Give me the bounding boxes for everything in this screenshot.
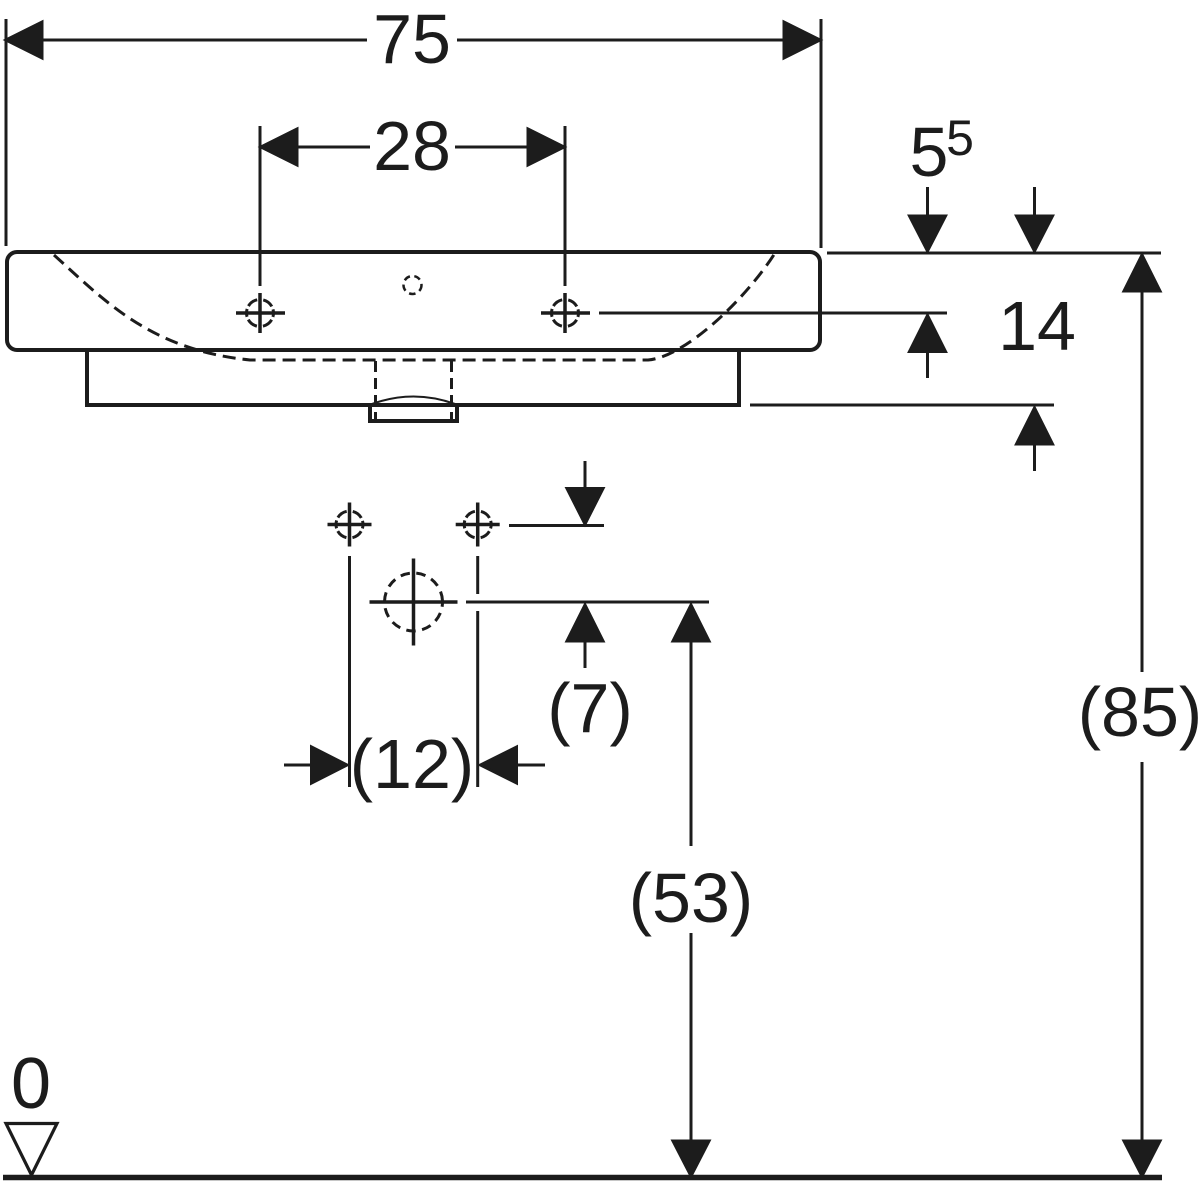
dim 14 up arrow (1017, 408, 1053, 471)
dim 75 left extension line (5, 19, 8, 246)
dim 14 down arrow (1017, 187, 1053, 251)
drain dome arc (372, 397, 455, 405)
basin inner dashed curve (54, 253, 775, 360)
mounting hole axis reference line (509, 524, 604, 527)
svg-text:75: 75 (373, 0, 451, 78)
svg-text:(85): (85) (1078, 673, 1200, 751)
tap hole left: dashed circle (247, 300, 274, 327)
svg-text:5: 5 (946, 110, 974, 166)
pedestal outline (87, 352, 739, 405)
svg-text:(7): (7) (547, 669, 633, 747)
dim 28 line left part (297, 146, 370, 149)
dim 12 right arrow (pointing left) (481, 747, 546, 783)
dim 85 lower line with down arrow (1124, 762, 1160, 1176)
drain dashed vertical left (374, 361, 377, 419)
mounting hole left: dashed circle (336, 511, 363, 538)
dim 28 line right part (455, 146, 528, 149)
drain hole dashed circle (385, 573, 443, 631)
dim 5.5 down arrow (910, 187, 946, 251)
svg-text:28: 28 (373, 107, 451, 185)
mounting hole right extension line lower (476, 611, 479, 787)
drain dashed vertical right (450, 361, 453, 419)
svg-text:5: 5 (910, 113, 949, 191)
dim 28 left extension line (259, 126, 262, 286)
mounting hole right crosshair (456, 503, 500, 547)
dim 75 arrow right (784, 22, 820, 58)
svg-text:0: 0 (11, 1044, 51, 1124)
dim 28 arrow right (528, 129, 564, 165)
pedestal bottom extension line (750, 404, 1054, 407)
mounting hole left extension line (348, 556, 351, 787)
top edge extension line right (827, 252, 1161, 255)
dim 28 arrow left (261, 129, 297, 165)
dim 75 arrow left (6, 22, 42, 58)
dim 53 lower line with down arrow (673, 933, 709, 1176)
drain axis reference line (466, 601, 709, 604)
dim 75 right extension line (820, 19, 823, 248)
overflow small dashed circle (404, 276, 422, 294)
dim 75 line left part (42, 39, 367, 42)
svg-text:14: 14 (998, 287, 1076, 365)
mounting hole left crosshair (328, 503, 372, 547)
svg-text:(12): (12) (350, 725, 474, 803)
dim 53 line with up arrow (673, 605, 709, 846)
tap hole axis extension line (599, 312, 947, 315)
svg-text:(53): (53) (629, 859, 753, 937)
dim 5.5 up arrow (910, 316, 946, 379)
drain hole crosshair (370, 559, 458, 646)
drain trap box (370, 406, 457, 421)
tap hole right crosshair (541, 293, 590, 333)
dim 7 down arrow (567, 461, 603, 524)
dim 7 up arrow (567, 605, 603, 668)
dim 85 upper line with up arrow (1124, 255, 1160, 672)
dim 75 line right part (457, 39, 784, 42)
dim 28 right extension line (564, 126, 567, 286)
ground line (3, 1175, 1162, 1181)
mounting hole right: dashed circle (464, 511, 491, 538)
datum zero triangle (6, 1124, 57, 1176)
tap hole right: dashed circle (552, 300, 579, 327)
washbasin top section outline (7, 252, 820, 350)
mounting hole right extension line upper (476, 556, 479, 594)
dim 12 left arrow (pointing right) (284, 747, 347, 783)
tap hole left crosshair (236, 293, 285, 333)
